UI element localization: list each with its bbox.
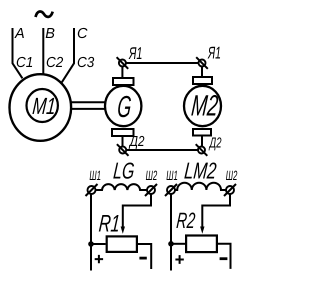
svg-text:M1: M1 <box>31 93 56 119</box>
svg-text:M2: M2 <box>190 90 219 123</box>
wire M2 terminal to brush <box>201 67 203 77</box>
field winding LG <box>96 184 148 190</box>
plus sign (left supply) <box>95 255 103 263</box>
field winding LM2 <box>175 183 226 190</box>
svg-text:Ш1: Ш1 <box>89 168 101 183</box>
minus sign (left supply) <box>139 257 146 260</box>
svg-text:R2: R2 <box>175 208 196 233</box>
brush top of M2 <box>193 77 212 84</box>
svg-text:LM2: LM2 <box>183 157 217 183</box>
svg-text:Я1: Я1 <box>128 44 142 63</box>
terminal Ш2 of LG <box>145 184 157 196</box>
terminal Д2 of M2 <box>196 144 208 156</box>
plus sign (right supply) <box>175 255 183 264</box>
phase C lead <box>62 28 74 82</box>
terminal Я1 of M2 <box>196 57 208 69</box>
generator G <box>105 78 141 136</box>
minus sign (right supply) <box>220 257 228 260</box>
svg-text:LG: LG <box>112 158 135 184</box>
wire G brush to terminal Я1 <box>121 67 123 78</box>
svg-text:Ш2: Ш2 <box>226 168 238 183</box>
svg-text:Я1: Я1 <box>207 44 221 63</box>
terminal Ш1 of LM2 <box>165 184 177 196</box>
wiper wire from Ш2 (right) <box>202 194 230 227</box>
wiper arrowhead (right) <box>200 227 204 234</box>
svg-text:R1: R1 <box>98 211 121 238</box>
wire R2 to - rail (right) <box>218 244 231 269</box>
phase A lead <box>13 28 23 78</box>
terminal Я1 of G <box>117 57 129 69</box>
wire node to R1 <box>91 243 106 245</box>
brush top of G <box>113 78 134 85</box>
svg-text:Д2: Д2 <box>208 136 221 152</box>
terminal Д2 of G <box>117 144 129 156</box>
rheostat R1 <box>107 236 137 252</box>
wire G bottom brush to terminal Д2 <box>122 137 124 147</box>
svg-text:A: A <box>14 26 25 42</box>
AC source symbol ~ <box>36 12 53 17</box>
brush bottom of M2 <box>193 129 211 136</box>
svg-text:Ш2: Ш2 <box>146 168 158 183</box>
svg-text:Д2: Д2 <box>128 134 144 150</box>
wire Д2(G) to Д2(M2) <box>126 149 198 151</box>
terminal Ш2 of LM2 <box>224 184 236 196</box>
junction node (right) <box>168 241 174 247</box>
svg-text:C: C <box>77 26 88 42</box>
wire node to R2 <box>171 243 185 245</box>
motor M2 <box>184 77 221 136</box>
wire Я1(G) to Я1(M2) <box>126 62 199 64</box>
svg-text:C3: C3 <box>77 55 94 71</box>
motor M1 <box>10 74 72 141</box>
svg-text:C1: C1 <box>16 55 33 71</box>
junction node <box>88 241 94 247</box>
svg-text:G: G <box>116 90 133 124</box>
rheostat R2 <box>186 236 217 253</box>
wire Ш1 down to + rail <box>90 194 92 271</box>
wire M2 bottom brush to terminal <box>201 137 203 147</box>
svg-text:Ш1: Ш1 <box>166 168 178 183</box>
svg-text:C2: C2 <box>46 55 63 71</box>
wire Ш1 down to + rail (right) <box>170 194 172 271</box>
svg-text:B: B <box>45 26 55 42</box>
phase B lead <box>42 28 44 74</box>
terminal Ш1 of LG <box>86 184 98 196</box>
wiper wire from Ш2 <box>123 194 151 227</box>
wire R1 to - rail <box>138 244 151 269</box>
shaft coupling M1-G <box>72 102 105 109</box>
brush bottom of G <box>112 129 134 136</box>
wiper arrowhead <box>121 227 125 234</box>
